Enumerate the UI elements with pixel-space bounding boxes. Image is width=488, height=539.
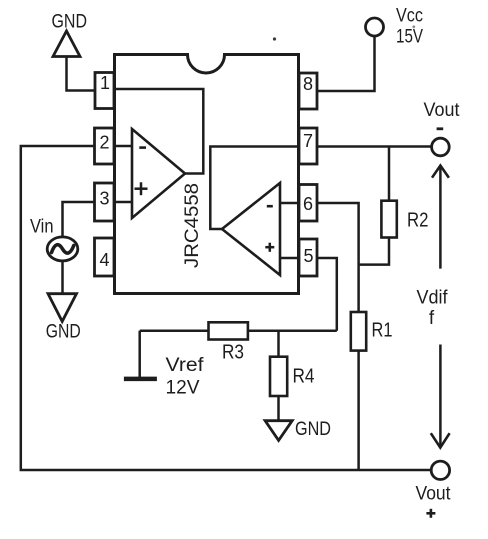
wire: pin 3 to Vin source: [63, 202, 95, 237]
svg-text:GND: GND: [52, 12, 88, 33]
wire: Vin source to ground: [61, 261, 64, 294]
wire: Vcc to pin 8: [317, 36, 375, 91]
node Vdiff measurement arrows: [417, 166, 450, 448]
wire: pin 6 right to R1: [317, 203, 359, 312]
wire: pin2 to U1A inverting input: [114, 145, 132, 148]
wire: feedback loop pin2 -> left edge -> bottom -> Vout+: [21, 146, 432, 470]
wire: U1B output to pin 7: [210, 147, 299, 230]
svg-text:2: 2: [99, 133, 109, 153]
svg-text:R4: R4: [293, 366, 315, 388]
node Vref 12V: [124, 331, 204, 399]
op-amp U1A: [132, 129, 185, 218]
wire: Vout- node down to R2: [388, 147, 391, 201]
op-amp U1B: [222, 183, 280, 275]
pin 1: [95, 73, 114, 109]
stray dot artifact near IC top: [273, 37, 276, 40]
wire: pin 5 right and down to R3 rail: [317, 258, 337, 331]
svg-text:7: 7: [303, 131, 313, 151]
svg-text:4: 4: [99, 250, 109, 270]
resistor R2: [381, 201, 428, 238]
svg-text:15V: 15V: [396, 27, 423, 48]
resistor R3: [209, 322, 248, 363]
svg-text:JRC4558: JRC4558: [181, 183, 203, 268]
svg-text:Vout: Vout: [416, 482, 452, 504]
wire: pin 7 to Vout- terminal: [317, 145, 432, 148]
svg-text:GND: GND: [295, 419, 331, 440]
svg-text:R3: R3: [222, 342, 244, 364]
ground (top left GND symbol): [52, 12, 88, 57]
svg-text:Vin: Vin: [30, 217, 54, 238]
svg-text:Vdif: Vdif: [417, 288, 449, 309]
resistor R4: [270, 357, 315, 396]
op-amp U1 (IC body JRC4558, DIP-8 outline with notch): [115, 55, 299, 294]
wire: U1B non-inverting input to pin 5: [280, 257, 300, 260]
resistor R1: [351, 312, 393, 351]
svg-text:3: 3: [99, 189, 109, 209]
wire: R1 bottom to bottom rail: [357, 351, 360, 470]
svg-text:R2: R2: [407, 210, 429, 232]
pin 7: [299, 128, 317, 164]
svg-text:f: f: [429, 308, 435, 329]
pin 6: [299, 185, 317, 222]
wire: U1A output to pin 1: [116, 89, 203, 174]
svg-text:R1: R1: [372, 320, 393, 342]
wire: Vref rail through R3 to pin5 branch: [140, 329, 337, 332]
pin 8: [299, 73, 317, 109]
pin 3: [95, 183, 115, 221]
svg-text:5: 5: [303, 246, 313, 266]
svg-text:Vref: Vref: [166, 354, 205, 376]
svg-text:Vout: Vout: [424, 99, 461, 121]
wire: R3 rail down to R4: [277, 331, 280, 357]
wire: pin3 to U1A non-inverting input: [114, 201, 132, 204]
ground (below R4): [265, 419, 331, 440]
pin 2: [95, 128, 115, 164]
wire: GND to pin 1: [67, 57, 96, 91]
wire: R2 bottom to pin6/R1 node: [360, 238, 389, 265]
node Vin source: [30, 217, 78, 261]
pin 5: [299, 239, 317, 276]
node Vout- terminal: [424, 99, 461, 156]
wire: U1B inverting input to pin 6: [280, 202, 300, 205]
ground (below Vin): [46, 294, 81, 343]
svg-text:12V: 12V: [166, 377, 200, 399]
node Vout+ terminal: [416, 461, 452, 518]
svg-text:GND: GND: [46, 322, 81, 343]
pin 4: [95, 238, 115, 276]
stray dot artifact above 15V: [412, 25, 415, 28]
svg-text:8: 8: [303, 74, 313, 94]
svg-text:1: 1: [100, 73, 110, 93]
svg-text:Vcc: Vcc: [396, 5, 423, 26]
node Vcc 15V terminal: [366, 5, 424, 47]
svg-text:6: 6: [303, 194, 313, 214]
wire: R4 bottom to ground: [277, 396, 280, 421]
